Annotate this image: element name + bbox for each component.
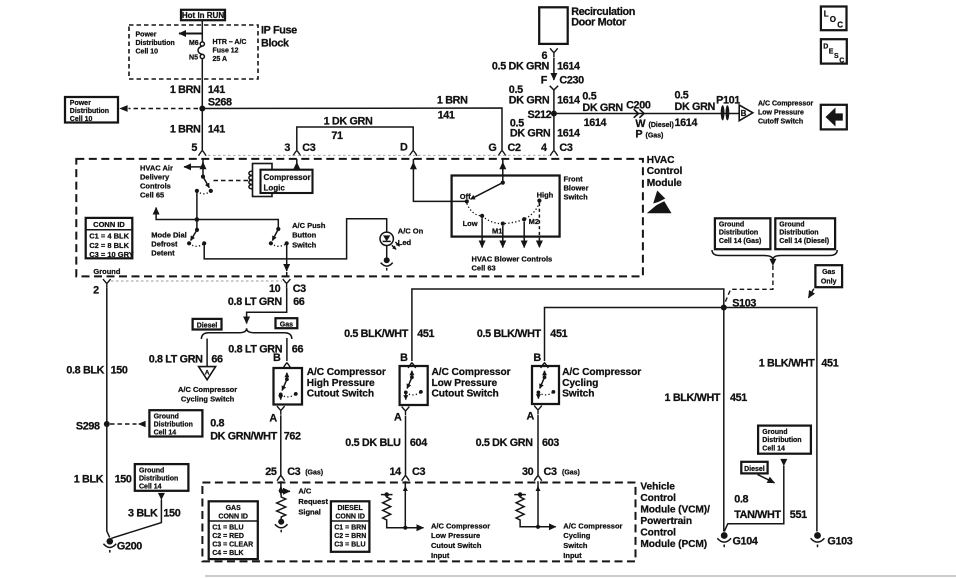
- svg-text:1 BRN: 1 BRN: [170, 124, 201, 136]
- svg-text:A: A: [394, 412, 402, 424]
- wire pin 14 into VCM: [404, 487, 406, 492]
- wire motor to C230 (0.5 DK GRN 1614): [553, 58, 555, 81]
- svg-text:S103: S103: [732, 298, 756, 310]
- wire 1 DK GRN 71 bracket from 3 C3 to D: [297, 127, 413, 150]
- pin 30 C3 (Gas): [534, 476, 542, 481]
- svg-text:Distribution: Distribution: [70, 108, 109, 115]
- svg-text:Cutout Switch: Cutout Switch: [432, 389, 499, 400]
- contact M1: [501, 222, 505, 226]
- svg-text:C: C: [837, 21, 843, 30]
- dashed wire S268 to power distribution box: [129, 108, 199, 110]
- svg-text:B: B: [273, 352, 281, 364]
- svg-text:Cell 14 (Gas): Cell 14 (Gas): [719, 238, 761, 245]
- svg-text:DK GRN: DK GRN: [675, 101, 716, 113]
- svg-text:1614: 1614: [557, 128, 580, 140]
- front blower switch box: [452, 176, 560, 237]
- svg-text:P: P: [635, 129, 642, 141]
- svg-text:A/C Compressor: A/C Compressor: [562, 367, 641, 378]
- ESD symbol: [653, 191, 666, 204]
- svg-text:DK GRN/WHT: DK GRN/WHT: [210, 431, 277, 443]
- arrow from brace: [769, 259, 776, 266]
- svg-text:A: A: [527, 411, 535, 423]
- wire 0.8 TAN/WHT 551 to G104: [724, 466, 784, 532]
- arrow gas only to wire: [809, 289, 814, 298]
- ground distribution cell 14 (gas) box: [715, 218, 771, 249]
- contact Off: [465, 199, 469, 203]
- svg-text:D: D: [400, 142, 408, 154]
- wire S103 down to G104 (1 BLK/WHT 451): [723, 308, 725, 532]
- svg-text:C3: C3: [559, 142, 572, 154]
- svg-text:141: 141: [438, 110, 455, 122]
- svg-text:Defrost: Defrost: [151, 240, 178, 249]
- svg-text:A/C Compressor: A/C Compressor: [758, 100, 814, 107]
- svg-text:Input: Input: [431, 551, 450, 560]
- Diesel tag: [193, 319, 222, 330]
- svg-text:C3 = BLU: C3 = BLU: [334, 542, 365, 549]
- svg-text:A/C Push: A/C Push: [292, 221, 326, 230]
- node S103: [721, 305, 727, 311]
- svg-text:Distribution: Distribution: [136, 40, 175, 47]
- svg-text:Cutoff Switch: Cutoff Switch: [758, 118, 803, 125]
- blower output arrows: [481, 218, 483, 247]
- svg-text:D: D: [823, 44, 828, 51]
- svg-text:IP Fuse: IP Fuse: [261, 25, 297, 37]
- resistor (low pressure input): [381, 494, 393, 496]
- wire to cycling switch (0.8 LT GRN 66): [206, 339, 208, 367]
- contact High: [537, 199, 541, 203]
- wire 3 BLK 150 to G200: [111, 500, 161, 539]
- blower dotted arc: [467, 203, 540, 224]
- svg-text:25 A: 25 A: [213, 56, 228, 63]
- svg-text:0.5: 0.5: [582, 91, 596, 103]
- svg-text:L: L: [824, 10, 829, 19]
- svg-text:Powertrain: Powertrain: [640, 516, 692, 527]
- svg-text:Switch: Switch: [564, 193, 589, 202]
- connector face line (top): [208, 154, 549, 156]
- svg-text:C3: C3: [293, 283, 306, 295]
- svg-text:0.8 BLK: 0.8 BLK: [66, 365, 104, 377]
- svg-text:14: 14: [389, 466, 401, 478]
- nav arrow box: [821, 105, 847, 130]
- IP fuse block dashed box: [129, 25, 258, 79]
- svg-text:Cell 14: Cell 14: [139, 483, 162, 490]
- svg-text:1 BLK/WHT: 1 BLK/WHT: [665, 392, 721, 404]
- ground (VCM internal): [278, 519, 284, 525]
- svg-text:C4 = BLK: C4 = BLK: [212, 550, 243, 557]
- wire pin G to blower pivot: [502, 162, 504, 170]
- svg-text:3: 3: [284, 142, 290, 154]
- svg-text:Gas: Gas: [280, 321, 293, 328]
- svg-text:Fuse 12: Fuse 12: [213, 48, 239, 55]
- pin 2 connector: [103, 279, 111, 288]
- wire compressor logic to pin 3: [296, 162, 298, 169]
- svg-text:451: 451: [417, 328, 434, 340]
- svg-text:3 BLK: 3 BLK: [128, 508, 158, 520]
- svg-text:Cycling Switch: Cycling Switch: [181, 395, 235, 404]
- svg-text:150: 150: [115, 474, 132, 486]
- Gas tag: [276, 318, 298, 328]
- HVAC control module dashed box: [76, 159, 643, 277]
- svg-text:Cell 14 (Diesel): Cell 14 (Diesel): [779, 238, 829, 245]
- wire to high pressure cutout switch (0.8 LT GRN 66): [286, 338, 288, 361]
- svg-text:A/C Compressor: A/C Compressor: [563, 521, 622, 530]
- svg-text:CONN ID: CONN ID: [335, 514, 365, 521]
- DESC box: [821, 39, 847, 63]
- svg-text:Cell 10: Cell 10: [70, 116, 93, 123]
- ground G103: [814, 532, 821, 539]
- svg-text:DK GRN: DK GRN: [510, 128, 551, 140]
- svg-text:451: 451: [821, 358, 838, 370]
- ground G200: [107, 538, 114, 545]
- svg-text:1614: 1614: [557, 94, 580, 106]
- svg-text:C: C: [839, 57, 844, 64]
- connector face line (bottom): [111, 280, 282, 282]
- svg-text:Power: Power: [136, 32, 157, 39]
- svg-text:High Pressure: High Pressure: [307, 378, 375, 389]
- svg-text:B: B: [533, 352, 541, 364]
- svg-text:0.5 DK GRN: 0.5 DK GRN: [476, 437, 534, 449]
- svg-text:HVAC Air: HVAC Air: [140, 163, 173, 172]
- svg-text:Mode Dial: Mode Dial: [151, 231, 186, 240]
- svg-text:Signal: Signal: [298, 507, 321, 516]
- brace under ground distribution boxes: [712, 250, 837, 260]
- svg-text:0.8 LT GRN: 0.8 LT GRN: [228, 296, 282, 308]
- A/C compressor high pressure cutout switch: [274, 368, 303, 405]
- svg-text:Controls: Controls: [140, 181, 171, 190]
- wire to HVAC air delivery controls: [184, 166, 203, 168]
- svg-text:451: 451: [550, 328, 567, 340]
- wire pin 25 into VCM: [280, 487, 282, 492]
- svg-text:S268: S268: [208, 96, 232, 108]
- svg-text:C3: C3: [544, 466, 557, 478]
- svg-text:Delivery: Delivery: [140, 172, 170, 181]
- wire S268 to G C2 (1 BRN 141): [202, 108, 502, 150]
- svg-text:Request: Request: [298, 497, 328, 506]
- svg-text:Low Pressure: Low Pressure: [758, 109, 804, 116]
- svg-text:5: 5: [191, 142, 197, 154]
- svg-text:HTR – A/C: HTR – A/C: [213, 39, 247, 46]
- arrow diesel to wire: [758, 475, 775, 483]
- svg-text:C1 = BRN: C1 = BRN: [334, 525, 366, 532]
- svg-text:Ground: Ground: [779, 222, 804, 229]
- svg-text:DIESEL: DIESEL: [337, 505, 363, 512]
- svg-text:(Gas): (Gas): [646, 133, 664, 140]
- svg-text:Led: Led: [398, 238, 412, 247]
- wire LED to ground: [386, 246, 388, 258]
- svg-text:M6: M6: [189, 40, 199, 47]
- svg-text:Vehicle: Vehicle: [640, 482, 675, 493]
- pin 10 C3 connector: [283, 279, 291, 288]
- svg-text:C1 = BLU: C1 = BLU: [212, 525, 243, 532]
- svg-text:Cell 10: Cell 10: [136, 49, 159, 56]
- wire cycling switch B from junction line: [545, 308, 817, 532]
- svg-text:604: 604: [410, 437, 427, 449]
- ground (LED): [384, 257, 390, 263]
- svg-text:Cycling: Cycling: [562, 378, 598, 389]
- wire from Hot In RUN down to fuse: [201, 20, 203, 42]
- wire S212 down to pin 4 C3: [553, 114, 555, 151]
- compressor logic coil: [253, 164, 273, 197]
- svg-text:C2 = RED: C2 = RED: [212, 533, 244, 540]
- svg-text:Logic: Logic: [264, 183, 286, 192]
- svg-text:10: 10: [269, 283, 281, 295]
- svg-text:C1 = 4 BLK: C1 = 4 BLK: [89, 232, 129, 241]
- svg-text:0.8: 0.8: [210, 418, 224, 430]
- svg-text:Input: Input: [563, 551, 582, 560]
- svg-text:C2 = BRN: C2 = BRN: [334, 533, 366, 540]
- svg-text:Cell 14: Cell 14: [762, 445, 785, 452]
- svg-text:150: 150: [111, 365, 128, 377]
- svg-text:Only: Only: [821, 279, 837, 286]
- dashed wire S298 to ground distribution: [110, 423, 137, 425]
- svg-text:Block: Block: [261, 38, 290, 50]
- svg-text:G103: G103: [827, 535, 852, 547]
- svg-text:Cell 14: Cell 14: [154, 429, 177, 436]
- svg-text:C3 = CLEAR: C3 = CLEAR: [212, 542, 253, 549]
- svg-text:0.5 DK GRN: 0.5 DK GRN: [492, 61, 550, 73]
- svg-text:O: O: [830, 15, 836, 24]
- svg-text:A: A: [205, 369, 210, 376]
- contact M2: [522, 217, 526, 221]
- svg-text:150: 150: [163, 508, 180, 520]
- pin A of high pressure cutout switch: [277, 406, 285, 415]
- svg-text:Control: Control: [647, 166, 683, 177]
- pin 25 C3 (Gas): [277, 476, 285, 481]
- svg-text:C3: C3: [302, 142, 315, 154]
- fuse block: Hot In RUN label box: [181, 10, 225, 20]
- svg-text:Diesel: Diesel: [197, 322, 218, 329]
- svg-text:C3: C3: [412, 466, 425, 478]
- svg-text:Switch: Switch: [563, 541, 588, 550]
- CONN ID box: [86, 218, 133, 258]
- svg-text:Ground: Ground: [93, 267, 120, 276]
- svg-text:N5: N5: [189, 55, 198, 62]
- A/C compressor low pressure cutout switch: [400, 366, 428, 405]
- GAS CONN ID box: [209, 501, 258, 559]
- svg-text:Button: Button: [292, 231, 317, 240]
- svg-text:Module (VCM)/: Module (VCM)/: [640, 505, 710, 516]
- svg-text:Low Pressure: Low Pressure: [431, 531, 480, 540]
- svg-text:Off: Off: [460, 192, 471, 201]
- wire mode switch to LED branch: [204, 219, 387, 259]
- wire to A/C compressor low pressure cutout switch input: [387, 523, 424, 528]
- svg-text:1614: 1614: [675, 117, 698, 129]
- fuse F12 HTR-A/C: [200, 42, 204, 46]
- svg-text:(Gas): (Gas): [562, 469, 580, 476]
- wire to pin 25 (0.8 DK GRN/WHT 762): [280, 415, 282, 475]
- DIESEL CONN ID box: [331, 501, 370, 552]
- svg-text:Module: Module: [647, 178, 682, 189]
- svg-text:DK GRN: DK GRN: [509, 94, 550, 106]
- svg-text:B: B: [741, 109, 747, 118]
- mode dial upper switch: [201, 175, 205, 179]
- svg-text:A/C: A/C: [298, 487, 312, 496]
- svg-text:Blower: Blower: [564, 184, 589, 193]
- svg-text:Distribution: Distribution: [719, 230, 758, 237]
- svg-text:603: 603: [542, 437, 559, 449]
- wire S268 down to pin 5: [201, 109, 203, 151]
- svg-text:Ground: Ground: [762, 429, 787, 436]
- svg-text:CONN ID: CONN ID: [218, 514, 248, 521]
- wire to pin 14 (0.5 DK BLU 604): [405, 416, 407, 476]
- svg-text:Distribution: Distribution: [154, 421, 193, 428]
- svg-text:Front: Front: [564, 175, 584, 184]
- svg-text:0.5 BLK/WHT: 0.5 BLK/WHT: [477, 328, 542, 340]
- arrow from box to tan/wht wire: [780, 459, 787, 466]
- node A/C request signal: [279, 489, 284, 494]
- svg-text:DK GRN: DK GRN: [582, 102, 623, 114]
- wire C230 to S212: [553, 90, 555, 114]
- wire to A/C push button: [197, 220, 278, 230]
- contact Low: [480, 214, 484, 218]
- svg-text:Switch: Switch: [562, 389, 594, 400]
- svg-text:Distribution: Distribution: [779, 230, 818, 237]
- brace splitting diesel/gas: [201, 328, 291, 339]
- svg-text:66: 66: [211, 353, 223, 365]
- svg-text:30: 30: [522, 466, 534, 478]
- wire push button down to pin 10: [286, 243, 288, 271]
- ground distribution cell 14 (diesel) box: [775, 218, 835, 249]
- svg-text:1 BLK: 1 BLK: [74, 474, 104, 486]
- svg-text:Low Pressure: Low Pressure: [432, 378, 498, 389]
- wire S298 down to G200 (1 BLK 150): [107, 424, 110, 538]
- wire pin 2 down to S298 (0.8 BLK 150): [106, 288, 108, 424]
- svg-text:S212: S212: [527, 109, 551, 121]
- wire pin 5 into module: [202, 162, 204, 167]
- svg-text:141: 141: [208, 84, 225, 96]
- svg-text:Ground: Ground: [154, 413, 179, 420]
- svg-text:Ground: Ground: [139, 467, 164, 474]
- svg-text:1 BLK/WHT: 1 BLK/WHT: [759, 358, 815, 370]
- A/C compressor cycling switch triangle (pin A): [199, 367, 216, 380]
- branch to delivery controls arrow: [156, 208, 197, 220]
- svg-text:2: 2: [93, 284, 99, 296]
- Gas Only tag: [815, 265, 842, 287]
- svg-text:Gas: Gas: [822, 269, 835, 276]
- svg-text:CONN ID: CONN ID: [93, 220, 125, 229]
- pin B triangle of cutoff switch: [739, 105, 753, 121]
- svg-text:P101: P101: [716, 95, 740, 107]
- arrow from box to 3 BLK wire: [158, 493, 165, 500]
- wire to A/C compressor cycling switch input: [520, 523, 556, 527]
- pin A of low pressure cutout switch: [402, 407, 410, 416]
- pin A of cycling switch: [534, 406, 542, 415]
- wire upper switch to lower mode switch: [196, 191, 198, 230]
- svg-text:Cutout Switch: Cutout Switch: [307, 389, 374, 400]
- svg-text:141: 141: [208, 124, 225, 136]
- svg-text:A/C Compressor: A/C Compressor: [431, 521, 490, 530]
- svg-text:0.5: 0.5: [675, 90, 689, 102]
- ground G104: [721, 532, 728, 539]
- svg-text:TAN/WHT: TAN/WHT: [734, 509, 781, 521]
- wire pin 30 into VCM: [537, 487, 539, 492]
- power distribution cell 10 box: [65, 97, 118, 123]
- svg-text:71: 71: [331, 130, 343, 142]
- svg-text:0.8 LT GRN: 0.8 LT GRN: [149, 353, 203, 365]
- svg-text:451: 451: [730, 392, 747, 404]
- svg-text:Ground: Ground: [719, 222, 744, 229]
- svg-text:Cycling: Cycling: [563, 531, 591, 540]
- svg-text:1614: 1614: [584, 117, 607, 129]
- svg-text:G104: G104: [733, 535, 758, 547]
- svg-text:A/C Compressor: A/C Compressor: [307, 367, 386, 378]
- mechanical linkage to compressor logic: [214, 180, 253, 182]
- svg-text:HVAC Blower Controls: HVAC Blower Controls: [472, 255, 553, 264]
- resistor (cycling switch input): [514, 494, 526, 496]
- svg-text:Distribution: Distribution: [139, 475, 178, 482]
- blower switch pivot and blade: [501, 181, 505, 185]
- wire to pin 30 (0.5 DK GRN 603): [537, 415, 539, 476]
- svg-text:762: 762: [284, 431, 301, 443]
- svg-text:Control: Control: [640, 493, 676, 504]
- svg-text:Hot In RUN: Hot In RUN: [182, 11, 224, 20]
- svg-text:Module (PCM): Module (PCM): [640, 539, 707, 550]
- wire S212 right to P101: [554, 113, 739, 115]
- svg-text:Diesel: Diesel: [744, 466, 765, 473]
- svg-text:66: 66: [293, 296, 305, 308]
- svg-text:(Gas): (Gas): [305, 469, 323, 476]
- recirculation door motor: [539, 7, 568, 44]
- svg-text:M2: M2: [529, 217, 539, 226]
- svg-text:Detent: Detent: [151, 249, 175, 258]
- svg-text:Compressor: Compressor: [264, 173, 311, 182]
- svg-text:1614: 1614: [557, 61, 580, 73]
- svg-text:G: G: [488, 142, 496, 154]
- svg-text:C2 = 8 BLK: C2 = 8 BLK: [89, 241, 129, 250]
- svg-text:C230: C230: [559, 74, 584, 86]
- wire pin D to blower switch: [412, 162, 414, 170]
- svg-text:A/C On: A/C On: [398, 227, 424, 236]
- pin 14 C3: [402, 476, 410, 481]
- A/C compressor cycling switch: [532, 366, 559, 404]
- svg-text:S: S: [834, 53, 839, 60]
- svg-text:(Diesel): (Diesel): [649, 122, 674, 129]
- svg-text:C2: C2: [508, 142, 521, 154]
- svg-text:Distribution: Distribution: [762, 437, 801, 444]
- svg-text:C200: C200: [626, 100, 651, 112]
- svg-text:F: F: [541, 74, 548, 86]
- svg-text:A/C Compressor: A/C Compressor: [178, 385, 237, 394]
- ground distribution cell 14 box (upper): [149, 410, 202, 436]
- wire fuse to S268: [201, 59, 203, 109]
- svg-text:0.5 DK BLU: 0.5 DK BLU: [345, 437, 401, 449]
- wire low pressure cutout B from junction line: [412, 289, 724, 361]
- svg-text:0.8: 0.8: [734, 494, 748, 506]
- Diesel tag (right): [741, 462, 767, 474]
- svg-text:Control: Control: [640, 528, 676, 539]
- A/C On LED: [380, 232, 393, 245]
- mode dial lower switch (defrost detent): [195, 228, 199, 232]
- svg-text:S298: S298: [76, 420, 100, 432]
- svg-text:C3 = 10 GRY: C3 = 10 GRY: [89, 250, 134, 259]
- svg-text:A/C Compressor: A/C Compressor: [432, 367, 511, 378]
- svg-text:1 BRN: 1 BRN: [170, 84, 201, 96]
- svg-text:HVAC: HVAC: [647, 155, 675, 166]
- ground distribution cell 14 box (lower): [135, 464, 189, 491]
- compressor logic box: [261, 170, 313, 193]
- svg-text:G200: G200: [117, 541, 142, 553]
- svg-text:Low: Low: [463, 219, 478, 228]
- svg-text:M1: M1: [492, 227, 502, 236]
- scan artifact line: [205, 575, 956, 577]
- svg-text:Cutout Switch: Cutout Switch: [431, 541, 482, 550]
- svg-text:551: 551: [790, 509, 807, 521]
- dashed ground path to S103: [724, 266, 773, 305]
- svg-text:25: 25: [265, 466, 277, 478]
- svg-text:GAS: GAS: [226, 505, 242, 512]
- ground distribution cell 14 box (right): [758, 426, 811, 454]
- svg-text:Cell 65: Cell 65: [140, 190, 164, 199]
